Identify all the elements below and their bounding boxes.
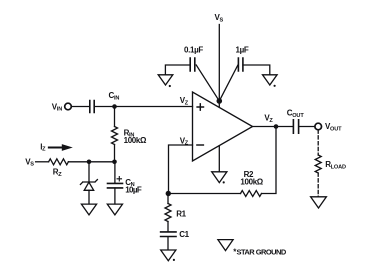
ground star op-amp [212, 172, 227, 184]
svg-text:C1: C1 [179, 230, 189, 239]
wire dashed VOUT to RLOAD [317, 130, 319, 155]
wire VIN to CIN [71, 106, 89, 108]
node VS junction dot [217, 98, 223, 104]
wire node F to R1 [167, 194, 169, 204]
wire op-amp output [253, 126, 293, 128]
ground zener [81, 204, 96, 215]
capacitor C3 1uF bypass [238, 58, 243, 71]
zener diode D1 [80, 180, 97, 191]
label STAR GROUND note [233, 247, 287, 256]
wire node F to R2 [168, 193, 240, 195]
capacitor C1 [161, 232, 176, 237]
node B junction dot [112, 160, 117, 165]
label VS left source [25, 157, 34, 167]
svg-text:R1: R1 [176, 209, 186, 218]
svg-text:STAR GROUND: STAR GROUND [237, 248, 287, 257]
capacitor C2 0.1uF bypass [190, 58, 195, 71]
svg-text:1µF: 1µF [236, 46, 249, 55]
wire R1 to C1 [167, 222, 169, 232]
node F feedback junction dot [166, 191, 171, 196]
ground legend symbol [218, 240, 233, 251]
ground CN [107, 204, 122, 215]
node A dot CIN/RIN junction [112, 104, 117, 109]
node VOUT terminal [315, 123, 322, 130]
node VZ output dot [274, 124, 279, 129]
capacitor COUT [293, 120, 298, 133]
label C1 [179, 230, 189, 239]
wire op-amp ground pin [218, 146, 220, 172]
ground RLOAD [311, 197, 327, 208]
label CN plus polarity [117, 177, 121, 181]
label CN 10uF [125, 178, 142, 195]
op-amp U1 [193, 92, 253, 161]
resistor RIN 100k [112, 127, 118, 145]
wire R2 to output node [262, 127, 277, 194]
label VZ plus input [180, 96, 189, 106]
label VZ minus input [180, 136, 189, 146]
resistor RZ [49, 159, 69, 165]
label IZ [40, 142, 46, 152]
label VIN [52, 102, 62, 112]
label RIN 100k [124, 128, 147, 145]
node D1 junction dot [87, 160, 92, 165]
wire diagonal from C3 to VS node [219, 65, 238, 101]
ground star left bypass [158, 75, 173, 87]
wire dashed RLOAD to ground [317, 173, 319, 196]
wire node B to CN [114, 162, 116, 183]
label RZ [53, 168, 62, 178]
resistor R2 100k [241, 191, 262, 197]
node VS supply label [215, 13, 224, 23]
wire RZ to node B [68, 161, 114, 163]
resistor RLOAD [315, 155, 321, 173]
wire COUT to VOUT terminal [299, 126, 315, 128]
svg-text:100kΩ: 100kΩ [124, 136, 147, 145]
label COUT [287, 109, 305, 119]
label VOUT [325, 122, 342, 132]
ground star C1 [161, 250, 176, 261]
label CIN [109, 91, 120, 101]
svg-text:100kΩ: 100kΩ [240, 178, 263, 187]
wire C3 to ground [243, 65, 270, 75]
wire CIN to op-amp + input [95, 106, 193, 108]
wire C1 to ground [167, 237, 169, 250]
label VZ output [264, 114, 273, 124]
wire node D1 to zener [88, 162, 90, 182]
wire RIN to node B [114, 145, 116, 162]
label R1 [176, 209, 186, 218]
label 0.1uF [184, 46, 203, 55]
label R2 100k [240, 170, 263, 187]
wire zener to ground [88, 190, 90, 204]
wire node A down to RIN [114, 107, 116, 127]
resistor R1 [165, 204, 171, 222]
wire VS vertical rail [218, 25, 220, 108]
capacitor CIN [90, 101, 94, 113]
ground star right bypass [263, 75, 278, 87]
wire C2 to ground [165, 65, 190, 75]
arrow IZ current direction [49, 144, 73, 151]
svg-text:0.1µF: 0.1µF [184, 46, 203, 55]
label 1uF [236, 46, 249, 55]
wire CN to ground [114, 188, 116, 204]
wire diagonal from C2 to VS node [196, 65, 219, 101]
label RLOAD [325, 160, 346, 170]
node VIN terminal [65, 103, 72, 110]
svg-text:10µF: 10µF [125, 186, 142, 195]
wire VS to RZ [36, 161, 49, 163]
capacitor CN 10uF polarized [108, 183, 123, 188]
wire minus input to feedback node [169, 145, 193, 194]
